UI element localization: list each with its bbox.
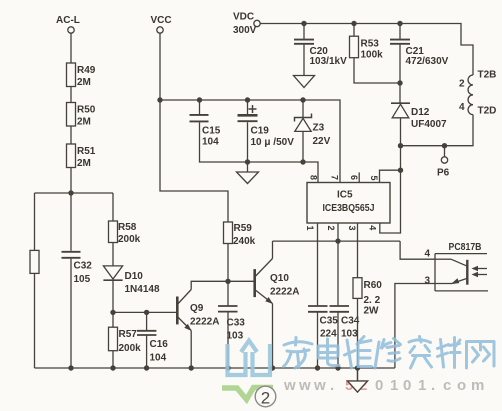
ground symbol over url: [348, 368, 368, 392]
svg-text:6: 6: [349, 175, 359, 180]
svg-text:224: 224: [320, 329, 337, 340]
svg-text:200k: 200k: [118, 234, 141, 245]
node C15 top junction: [197, 97, 202, 102]
wire junction to C16: [146, 312, 148, 330]
node Z3 top junction: [300, 97, 305, 102]
wire Q10 emitter to ground bus: [272, 304, 274, 369]
node R53 rail junction: [351, 21, 356, 26]
svg-text:472/630V: 472/630V: [406, 56, 449, 67]
wire node D to Q10 base: [228, 280, 255, 282]
junction C34 bus: [335, 365, 340, 370]
watermark char wang: [467, 342, 495, 369]
svg-text:ICE3BQ565J: ICE3BQ565J: [323, 203, 375, 214]
svg-text:5: 5: [369, 175, 379, 180]
wire C15 bottom to IC pin8: [200, 122, 319, 182]
junction R60 bus: [355, 365, 360, 370]
svg-text:2222A: 2222A: [190, 317, 219, 328]
svg-text:UF4007: UF4007: [411, 119, 447, 130]
wire rail to C21: [399, 24, 401, 39]
capacitor C34: [330, 306, 360, 340]
svg-text:200k: 200k: [119, 343, 142, 354]
svg-text:R50: R50: [77, 105, 96, 116]
junction Q10 emitter bus: [270, 365, 275, 370]
resistor R60: [353, 278, 382, 317]
wire rail to C19: [247, 100, 249, 114]
wire rail to R53: [353, 24, 355, 37]
ground below C20: [294, 45, 315, 88]
svg-text:R53: R53: [361, 39, 380, 50]
svg-text:103: 103: [227, 331, 244, 342]
svg-text:D12: D12: [411, 107, 430, 118]
wire FB to opto pin 4: [400, 241, 435, 259]
wire node D to C33: [227, 281, 229, 305]
optocoupler PC817B: [425, 242, 489, 291]
svg-text:T2D: T2D: [478, 106, 497, 117]
svg-text:2M: 2M: [77, 117, 91, 128]
capacitor C20: [294, 40, 347, 67]
svg-text:104: 104: [150, 353, 167, 364]
svg-text:2: 2: [459, 79, 465, 90]
svg-text:D10: D10: [125, 271, 144, 282]
svg-text:240k: 240k: [233, 236, 256, 247]
wire AC-L to R49: [70, 33, 72, 63]
node C16 top junction: [144, 310, 149, 315]
svg-text:VCC: VCC: [151, 15, 172, 26]
node A junction: [68, 190, 73, 195]
wire Q10 collector to FB line: [272, 241, 274, 258]
wire bus to opto pin 3: [395, 284, 435, 369]
svg-text:C19: C19: [251, 126, 270, 137]
svg-text:300V: 300V: [233, 25, 257, 36]
svg-text:T2B: T2B: [478, 70, 497, 81]
svg-text:R57: R57: [119, 329, 138, 340]
capacitor C35: [308, 306, 338, 340]
wire ground bus: [35, 367, 395, 369]
junction C33 bus: [225, 365, 230, 370]
svg-text:www.: www.: [283, 377, 334, 394]
terminal P6: [437, 146, 450, 179]
svg-text:8: 8: [309, 175, 319, 180]
wire pin5 branch: [380, 170, 401, 182]
watermark char dian: [318, 339, 339, 366]
svg-text:2: 2: [261, 389, 270, 408]
svg-text:10 μ /50V: 10 μ /50V: [251, 137, 295, 148]
wire pin2 to C34: [337, 223, 339, 305]
wire pin1 to C35: [317, 223, 319, 305]
watermark green swoosh: [222, 388, 273, 400]
node VCC rail junction: [157, 97, 162, 102]
transistor Q9: [177, 290, 219, 332]
wire R57 to ground bus: [112, 351, 114, 368]
wire Q9 emitter to ground bus: [190, 331, 192, 369]
svg-text:1: 1: [305, 225, 315, 230]
node B junction: [110, 310, 115, 315]
wire drain vertical node E to pin4: [380, 146, 401, 233]
node C19 top junction: [245, 97, 250, 102]
junction C35 bus: [315, 365, 320, 370]
resistor R51: [67, 144, 96, 169]
svg-text:Q9: Q9: [190, 303, 204, 314]
capacitor C19 polarized: [238, 105, 295, 148]
wire C19 to ground node: [247, 122, 249, 162]
svg-text:103/1kV: 103/1kV: [310, 56, 348, 67]
wire R60 to ground bus: [357, 298, 359, 368]
svg-text:AC-L: AC-L: [56, 15, 80, 26]
wire node A to C32: [70, 193, 72, 251]
junction R57 bus: [110, 365, 115, 370]
capacitor C21: [390, 40, 449, 67]
node C19 bottom junction: [245, 159, 250, 164]
op-amp U1 IC5 box: [307, 183, 390, 224]
svg-text:P6: P6: [437, 168, 450, 179]
svg-text:100k: 100k: [361, 50, 384, 61]
node E junction: [398, 143, 403, 148]
transistor Q10: [255, 259, 300, 305]
watermark logo book: [228, 341, 271, 376]
node C20 rail junction: [301, 21, 306, 26]
watermark char jia: [284, 338, 313, 369]
resistor R58: [109, 221, 141, 245]
wire rail to Z3: [302, 100, 304, 118]
svg-text:Q10: Q10: [270, 273, 289, 284]
wire R59 to node D: [227, 244, 229, 282]
node Z3 bottom junction: [300, 159, 305, 164]
svg-text:4: 4: [367, 225, 377, 230]
svg-text:R49: R49: [77, 65, 96, 76]
junction Q9 emitter bus: [189, 365, 194, 370]
wire R58 to D10: [112, 243, 114, 266]
resistor R53: [350, 36, 384, 60]
node P6 junction: [442, 143, 447, 148]
svg-text:3: 3: [347, 225, 357, 230]
wire left resistor to ground bus: [34, 273, 36, 368]
watermark char xiu: [375, 339, 401, 369]
node C21 R53 junction: [397, 80, 402, 85]
node FB pin2 junction: [335, 238, 340, 243]
wire rail to C15: [199, 100, 201, 114]
svg-text:Z3: Z3: [313, 123, 325, 134]
wire pin3 to R60: [357, 223, 359, 278]
svg-text:C16: C16: [150, 339, 169, 350]
wire node A to R58: [112, 193, 114, 221]
svg-text:104: 104: [202, 137, 219, 148]
transformer winding T2B T2D: [459, 70, 496, 117]
svg-text:2222A: 2222A: [270, 287, 299, 298]
capacitor C16: [137, 331, 168, 364]
wire left branch down: [34, 193, 36, 250]
terminal VCC: [151, 15, 172, 33]
svg-text:0101.com: 0101.com: [375, 377, 484, 394]
svg-text:4: 4: [459, 102, 465, 113]
wire C16 to ground bus: [146, 336, 148, 368]
node pin5 branch junction: [398, 168, 403, 173]
svg-text:C32: C32: [74, 261, 93, 272]
wire VDC rail: [260, 24, 473, 76]
svg-text:105: 105: [74, 274, 91, 285]
wire R51 down to node A: [70, 168, 72, 194]
wire C35 to ground bus: [317, 312, 319, 368]
svg-text:1N4148: 1N4148: [125, 284, 160, 295]
capacitor C33: [218, 306, 245, 342]
node D junction: [225, 279, 230, 284]
watermark char zi: [409, 337, 432, 369]
svg-text:2M: 2M: [77, 77, 91, 88]
wire R53 to C21 node: [354, 58, 400, 83]
junction C16 bus: [144, 365, 149, 370]
wire Q9 collector up: [191, 281, 228, 289]
wire FB line pin2 row: [273, 240, 401, 242]
terminal VDC: [233, 12, 260, 37]
wire R49 to R50: [70, 87, 72, 103]
terminal AC-L: [56, 15, 80, 33]
svg-text:R51: R51: [77, 146, 96, 157]
svg-text:C33: C33: [227, 318, 246, 329]
svg-text:103: 103: [341, 329, 358, 340]
wire Z3 to ground line: [302, 131, 304, 162]
watermark char liao: [438, 338, 461, 368]
svg-text:C35: C35: [320, 316, 339, 327]
svg-text:2. 2: 2. 2: [364, 295, 381, 306]
svg-text:R59: R59: [234, 223, 253, 234]
svg-text:R58: R58: [118, 222, 137, 233]
wire rail to C20: [303, 24, 305, 39]
svg-text:7: 7: [330, 175, 340, 180]
watermark char wei: [345, 337, 372, 369]
wire node B to Q9 base: [113, 311, 177, 313]
svg-text:VDC: VDC: [233, 12, 254, 23]
wire C33 to ground bus: [227, 312, 229, 368]
wire winding to node E row: [401, 115, 474, 146]
resistor R50: [67, 103, 96, 128]
svg-text:R60: R60: [364, 280, 383, 291]
svg-text:C15: C15: [202, 126, 221, 137]
svg-text:IC5: IC5: [337, 190, 353, 201]
node C21 rail junction: [397, 21, 402, 26]
svg-text:2W: 2W: [364, 306, 380, 317]
page number circled 2: [255, 386, 276, 407]
wire node B to R57: [112, 312, 114, 327]
wire C34 to ground bus: [337, 312, 339, 368]
wire VCC rail to IC pin7: [160, 100, 340, 183]
capacitor C32: [62, 252, 93, 285]
resistor R57: [109, 327, 142, 354]
wire C32 to ground bus: [70, 259, 72, 368]
svg-text:22V: 22V: [313, 136, 331, 147]
zener Z3: [295, 114, 331, 148]
svg-text:3: 3: [425, 276, 431, 287]
junction C32 bus: [68, 365, 73, 370]
svg-text:2: 2: [326, 225, 336, 230]
capacitor C15: [190, 115, 221, 148]
wire D12 to node E: [400, 118, 402, 146]
svg-text:PC817B: PC817B: [449, 242, 482, 253]
wire VCC down: [159, 33, 161, 100]
resistor R49: [67, 63, 96, 88]
resistor unlabeled left: [30, 250, 39, 273]
diode D12: [391, 103, 447, 130]
ground symbol bottom: [348, 368, 368, 392]
diode D10: [103, 266, 160, 295]
wire VCC down to R59: [160, 100, 228, 222]
svg-text:2M: 2M: [77, 158, 91, 169]
wire C21 to D12: [399, 45, 401, 104]
wire D10 to node B: [112, 280, 114, 312]
pin 6 stub: [358, 172, 360, 182]
ground below C19: [237, 162, 259, 184]
resistor R59: [224, 222, 256, 247]
wire R50 to R51: [70, 126, 72, 144]
wire horizontal node A row: [35, 192, 114, 194]
svg-text:4: 4: [425, 249, 431, 260]
